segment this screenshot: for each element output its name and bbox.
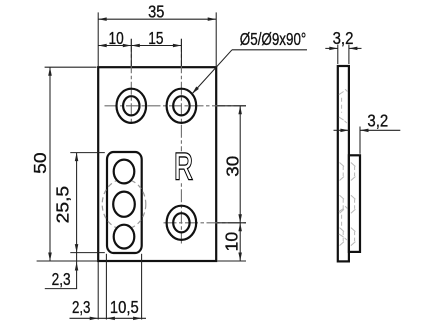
- slot hole A: [114, 160, 135, 184]
- letter R marking: [175, 151, 193, 181]
- extension line slot top: [70, 152, 105, 154]
- extension line plate bottom right: [217, 260, 246, 262]
- hole H2 bore inner: [173, 96, 189, 115]
- leader line to countersink label: [192, 50, 232, 94]
- plate front view outline: [98, 67, 216, 261]
- svg-text:Ø5/Ø9x90°: Ø5/Ø9x90°: [240, 29, 306, 49]
- hidden bore marks pad: [351, 163, 356, 181]
- dimension 3,2 top line: [325, 47, 338, 49]
- extension line plate left bottom: [97, 262, 99, 320]
- svg-text:15: 15: [148, 28, 163, 48]
- extension line slot bottom: [70, 252, 105, 254]
- hidden countersink mark hole H3 level: [339, 206, 348, 240]
- extension line slot right bottom: [141, 254, 143, 320]
- side view pad body: [349, 155, 360, 252]
- dimension 25,5 and 2,3 line: [76, 153, 78, 289]
- slot hole B: [113, 192, 135, 217]
- centerline vertical through holes H2 H3: [180, 39, 182, 244]
- extension line hole H2 vertical above plate: [180, 39, 182, 67]
- hole H1 countersink outer: [117, 89, 147, 123]
- centerline horizontal through hole H3: [164, 222, 247, 224]
- svg-text:10: 10: [109, 28, 124, 48]
- hole H2 countersink outer: [167, 89, 197, 123]
- dimension 10-15 line: [98, 45, 181, 47]
- dimension 35 line: [98, 18, 216, 20]
- extension line plate bottom left: [37, 260, 97, 262]
- extension line hole H1 vertical above plate: [130, 39, 132, 67]
- svg-text:R: R: [174, 146, 193, 187]
- slot pad rounded rectangle: [107, 152, 142, 253]
- svg-text:2,3: 2,3: [72, 297, 91, 317]
- svg-text:25,5: 25,5: [52, 186, 72, 224]
- hidden circle dashed around middle slot hole: [102, 179, 146, 229]
- svg-text:10,5: 10,5: [110, 297, 139, 317]
- extension line right x216 top: [215, 12, 217, 66]
- svg-text:30: 30: [223, 156, 243, 177]
- svg-text:50: 50: [30, 152, 50, 174]
- extension line slot left bottom: [105, 254, 107, 320]
- bottom dimension line: [70, 317, 147, 319]
- svg-text:10: 10: [222, 232, 242, 252]
- svg-text:3,2: 3,2: [367, 111, 388, 131]
- svg-text:35: 35: [148, 2, 164, 22]
- svg-text:2,3: 2,3: [52, 269, 71, 289]
- extension line hole H2 level right: [217, 105, 246, 107]
- extension line left x98 top: [97, 12, 99, 66]
- hole H1 bore inner: [123, 96, 139, 115]
- hole H3 bore inner: [173, 213, 189, 232]
- side view plate body: [338, 66, 349, 261]
- hole H3 countersink outer: [167, 206, 197, 240]
- dimension 3,2 right line: [334, 129, 349, 131]
- slot hole C: [114, 225, 135, 249]
- leader foot under 2,3 left text: [45, 288, 77, 290]
- dimension 50 line: [49, 67, 51, 261]
- extension line hole H3 level right: [217, 222, 246, 224]
- centerline vertical through hole H1: [130, 39, 132, 123]
- hidden countersink mark hole H1-H2 level: [339, 89, 348, 123]
- extension line plate top left: [45, 66, 97, 68]
- dimension 30 and 10 line: [239, 106, 241, 261]
- extension line pad right top: [359, 127, 361, 154]
- centerline horizontal through holes H1 H2: [105, 105, 247, 107]
- svg-text:3,2: 3,2: [333, 28, 354, 48]
- extension lines side plate top: [337, 45, 339, 64]
- hidden bore marks plate, slot hole levels: [340, 163, 345, 181]
